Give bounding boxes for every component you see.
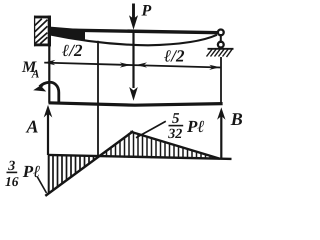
svg-text:Pℓ: Pℓ bbox=[22, 162, 41, 181]
svg-text:A: A bbox=[31, 69, 40, 81]
svg-text:32: 32 bbox=[167, 127, 182, 142]
svg-text:ℓ/2: ℓ/2 bbox=[164, 46, 185, 65]
svg-text:3: 3 bbox=[7, 159, 15, 174]
svg-text:Pℓ: Pℓ bbox=[186, 117, 205, 136]
svg-text:ℓ/2: ℓ/2 bbox=[62, 41, 83, 60]
svg-text:B: B bbox=[230, 109, 243, 129]
svg-text:A: A bbox=[26, 116, 39, 136]
svg-text:16: 16 bbox=[5, 174, 19, 189]
svg-text:5: 5 bbox=[172, 111, 180, 127]
svg-text:P: P bbox=[141, 3, 152, 20]
